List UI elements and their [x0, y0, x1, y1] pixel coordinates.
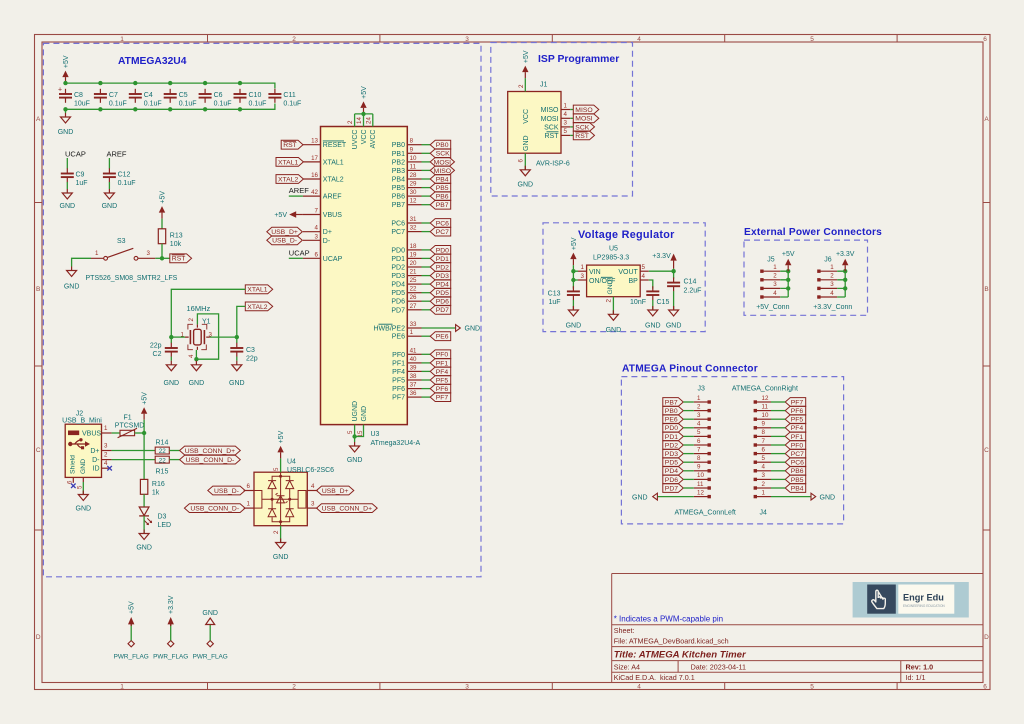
- svg-text:2: 2: [606, 299, 613, 303]
- power +5V (J1): [522, 50, 530, 78]
- svg-text:C14: C14: [684, 279, 697, 286]
- svg-text:PE6: PE6: [436, 334, 449, 341]
- U3 pin 12 PB7: [392, 198, 422, 210]
- svg-text:C6: C6: [214, 92, 223, 99]
- svg-text:PB5: PB5: [791, 477, 804, 484]
- svg-text:2: 2: [104, 452, 108, 459]
- svg-text:0.1uF: 0.1uF: [214, 100, 232, 107]
- global label PF0: [430, 350, 451, 359]
- svg-text:PB6: PB6: [436, 194, 449, 201]
- svg-text:1: 1: [104, 425, 108, 432]
- wire AREF to C12: [108, 158, 110, 169]
- frame row letters left: [36, 116, 41, 641]
- svg-text:R13: R13: [170, 233, 183, 240]
- svg-text:PB7: PB7: [392, 202, 405, 209]
- svg-text:C: C: [36, 447, 41, 454]
- svg-text:J6: J6: [824, 257, 832, 264]
- U3 pin 30 PB6: [392, 189, 422, 201]
- wire U3 PB1 to label: [422, 152, 431, 154]
- svg-text:22p: 22p: [150, 343, 162, 350]
- svg-text:PD1: PD1: [665, 434, 678, 441]
- U3 pin 27 PD7: [391, 303, 421, 315]
- svg-text:PD1: PD1: [436, 256, 449, 263]
- svg-text:Sheet:: Sheet:: [614, 626, 635, 635]
- U3 pin 20 PD2: [391, 260, 421, 272]
- power +5V (U4): [277, 430, 285, 458]
- svg-text:21: 21: [410, 269, 417, 276]
- svg-text:2: 2: [830, 273, 834, 280]
- global label SCK (J1): [573, 123, 594, 132]
- J1 pin 1 MISO: [541, 102, 571, 114]
- svg-text:4: 4: [773, 290, 777, 297]
- svg-text:USB_CONN_D+: USB_CONN_D+: [322, 506, 372, 513]
- wire U3 PB2 to label: [422, 161, 431, 163]
- U3 pin 18 PD0: [391, 243, 421, 255]
- svg-text:7: 7: [762, 438, 766, 445]
- svg-text:C11: C11: [283, 92, 295, 99]
- svg-text:PB0: PB0: [665, 408, 678, 415]
- svg-text:5: 5: [810, 36, 814, 43]
- svg-text:PC7: PC7: [391, 229, 405, 236]
- global label USB_CONN_D+ (U4): [317, 504, 378, 513]
- svg-text:PD4: PD4: [436, 282, 449, 289]
- U3 pin 8 PB0: [392, 138, 422, 150]
- power +5V (R13 pull-up): [159, 191, 167, 219]
- svg-text:2: 2: [273, 530, 280, 534]
- wire U3 ground pins: [352, 425, 363, 442]
- svg-text:C9: C9: [76, 172, 85, 179]
- svg-text:PF7: PF7: [791, 399, 804, 406]
- global label PD6 (J3 pin 10): [663, 475, 694, 484]
- svg-text:0.1uF: 0.1uF: [283, 100, 301, 107]
- svg-text:1uF: 1uF: [76, 180, 88, 187]
- svg-text:3: 3: [465, 684, 469, 691]
- svg-text:24: 24: [365, 117, 372, 124]
- title block Sheet row: [614, 626, 635, 635]
- power +5V (U5): [570, 237, 578, 265]
- svg-text:1: 1: [564, 102, 568, 109]
- svg-text:GND: GND: [102, 203, 118, 210]
- svg-text:ID: ID: [93, 466, 100, 473]
- U3 pin 13 RESET: [303, 138, 347, 150]
- svg-text:7: 7: [315, 208, 319, 215]
- svg-text:AREF: AREF: [289, 186, 309, 195]
- svg-text:PD7: PD7: [391, 307, 405, 314]
- svg-text:1: 1: [762, 489, 766, 496]
- svg-text:GND: GND: [666, 323, 682, 330]
- power flag PWR_FLAG +3.3V: [153, 595, 188, 660]
- svg-text:39: 39: [410, 364, 417, 371]
- capacitor C11: [268, 89, 301, 108]
- wire J2 D- to R15: [112, 459, 156, 461]
- svg-text:+5V: +5V: [571, 237, 578, 250]
- ground (C15): [645, 300, 661, 330]
- wire R16 to D3: [143, 494, 145, 507]
- global label PB5 (J4 pin 3): [771, 475, 806, 484]
- MCU U3 ATmega32U4-A body: [321, 127, 421, 448]
- svg-text:ISP Programmer: ISP Programmer: [538, 54, 619, 65]
- U3 top pin numbers 2 14 24: [347, 117, 372, 124]
- svg-text:6: 6: [315, 251, 319, 258]
- svg-text:LED: LED: [158, 522, 172, 529]
- svg-text:C13: C13: [548, 291, 561, 298]
- global label USB_CONN_D+: [180, 446, 241, 455]
- svg-text:XTAL1: XTAL1: [247, 287, 267, 294]
- svg-text:PF1: PF1: [791, 434, 804, 441]
- svg-text:22p: 22p: [246, 356, 258, 363]
- U3 pin 7 VBUS: [303, 208, 342, 220]
- svg-text:16: 16: [311, 172, 318, 179]
- svg-text:PB7: PB7: [436, 202, 449, 209]
- svg-text:GND: GND: [607, 279, 614, 294]
- section title Voltage Regulator: [578, 229, 675, 241]
- svg-text:10: 10: [762, 412, 769, 419]
- wire J1 SCK: [570, 126, 573, 128]
- section box External Power Connectors: [744, 240, 868, 315]
- wire U3 PD6 to label: [422, 300, 431, 302]
- svg-text:USB_D+: USB_D+: [271, 229, 298, 236]
- svg-text:RST: RST: [545, 133, 560, 140]
- svg-text:D+: D+: [323, 229, 332, 236]
- svg-text:2.2uF: 2.2uF: [684, 288, 702, 295]
- global label PC6: [430, 219, 451, 228]
- svg-text:36: 36: [410, 390, 417, 397]
- svg-text:GND: GND: [820, 494, 836, 501]
- title block Size / Date / Rev row: [614, 662, 933, 671]
- svg-text:F1: F1: [124, 415, 132, 422]
- global label PD1: [430, 254, 451, 263]
- svg-text:12: 12: [410, 198, 417, 205]
- svg-text:PF6: PF6: [791, 408, 804, 415]
- wire R15 to label: [169, 459, 179, 461]
- global label PD5 (J3 pin 8): [663, 458, 694, 467]
- svg-text:PB5: PB5: [392, 185, 405, 192]
- svg-text:0.1uF: 0.1uF: [118, 180, 136, 187]
- svg-text:PF7: PF7: [392, 395, 405, 402]
- svg-text:4: 4: [762, 464, 766, 471]
- U3 pin 32 PC7: [391, 225, 421, 237]
- svg-text:27: 27: [410, 303, 417, 310]
- svg-text:R16: R16: [152, 481, 165, 488]
- svg-text:1: 1: [120, 36, 124, 43]
- svg-text:3: 3: [564, 120, 568, 127]
- capacitor C2 22p: [150, 337, 178, 358]
- U3 bottom pins UGND GND: [347, 401, 368, 438]
- svg-text:3: 3: [830, 281, 834, 288]
- wire U3 PF5 to label: [422, 379, 431, 381]
- U4 pin 6: [244, 483, 254, 491]
- svg-text:2: 2: [188, 318, 195, 322]
- global label PD3 (J3 pin 7): [663, 449, 694, 458]
- wire U3 PD0 to label: [422, 249, 431, 251]
- svg-text:Y1: Y1: [202, 319, 211, 326]
- svg-text:C3: C3: [246, 347, 255, 354]
- global label PF4 (J4 pin 9): [771, 423, 806, 432]
- svg-text:38: 38: [410, 373, 417, 380]
- capacitor C7: [94, 89, 127, 108]
- U3 pin 37 PF6: [392, 382, 421, 394]
- global label PF5: [430, 376, 451, 385]
- connector J3 ATMEGA_ConnLeft: [675, 386, 736, 517]
- svg-text:3: 3: [311, 501, 315, 508]
- svg-text:J1: J1: [540, 82, 548, 89]
- ground (S3): [64, 267, 80, 291]
- global label PD4: [430, 280, 451, 289]
- U3 pin 4 D+: [303, 225, 332, 237]
- ground (C2): [164, 357, 180, 387]
- node UCAP: [65, 150, 86, 159]
- wire U3 PF1 to label: [422, 362, 431, 364]
- section box ATMEGA Pinout Connector: [621, 377, 843, 524]
- svg-text:PB6: PB6: [791, 468, 804, 475]
- svg-text:PD1: PD1: [391, 256, 405, 263]
- global label XTAL2: [245, 302, 272, 311]
- svg-text:28: 28: [410, 172, 417, 179]
- svg-text:20: 20: [410, 260, 417, 267]
- global label RST: [170, 254, 192, 263]
- title block Title row: [614, 649, 747, 660]
- svg-text:2: 2: [347, 120, 354, 124]
- svg-text:8: 8: [762, 429, 766, 436]
- svg-text:6: 6: [983, 684, 987, 691]
- power +3.3V (J6): [836, 251, 855, 271]
- svg-text:PB1: PB1: [392, 151, 405, 158]
- svg-text:9: 9: [762, 421, 766, 428]
- svg-text:PF4: PF4: [436, 369, 449, 376]
- svg-text:5: 5: [77, 485, 84, 489]
- global label PB5: [430, 183, 451, 192]
- section title ATMEGA Pinout Connector: [622, 364, 758, 375]
- svg-text:VIN: VIN: [589, 269, 601, 276]
- J1 pin 4 MOSI: [541, 111, 571, 123]
- svg-text:22: 22: [159, 457, 167, 464]
- svg-text:2: 2: [292, 684, 296, 691]
- svg-text:4: 4: [642, 273, 646, 280]
- svg-text:+5V: +5V: [274, 212, 287, 219]
- node AREF: [107, 150, 127, 159]
- svg-text:GND: GND: [632, 494, 648, 501]
- svg-text:+5V: +5V: [142, 392, 149, 405]
- svg-text:1: 1: [247, 501, 251, 508]
- U3 pin 31 PC6: [391, 216, 421, 228]
- wire U3 top VCC bracket: [355, 112, 373, 127]
- svg-text:10k: 10k: [170, 241, 182, 248]
- svg-text:PF5: PF5: [436, 377, 449, 384]
- capacitor C10: [234, 89, 267, 108]
- U3 pin 25 PD4: [391, 277, 421, 289]
- svg-text:Rev: 1.0: Rev: 1.0: [906, 662, 934, 671]
- svg-text:USB_D-: USB_D-: [214, 488, 239, 495]
- svg-text:6: 6: [67, 480, 74, 484]
- svg-text:USBLC6-2SC6: USBLC6-2SC6: [287, 467, 334, 474]
- svg-text:C10: C10: [249, 92, 262, 99]
- U3 pin 33 HWB/PE2: [373, 321, 421, 333]
- svg-text:XTAL2: XTAL2: [247, 304, 267, 311]
- global label PB0 (J3 pin 2): [663, 406, 694, 415]
- svg-text:GND: GND: [80, 459, 87, 474]
- fuse F1 PTCSMD: [115, 415, 145, 438]
- U3 pin 9 PB1: [392, 146, 422, 158]
- svg-text:J2: J2: [76, 411, 84, 418]
- capacitor C4: [129, 89, 162, 108]
- svg-text:VCC: VCC: [523, 109, 530, 124]
- svg-text:UCAP: UCAP: [65, 150, 86, 159]
- U5 pin 3 ON/OFF: [578, 273, 587, 280]
- svg-text:SCK: SCK: [436, 151, 450, 158]
- U5 pin 1 VIN: [578, 264, 587, 271]
- svg-text:22: 22: [159, 448, 167, 455]
- svg-text:6: 6: [247, 483, 251, 490]
- J1 pin 6 GND: [518, 153, 526, 170]
- svg-text:+5V: +5V: [361, 86, 368, 99]
- svg-text:4: 4: [697, 421, 701, 428]
- svg-text:4: 4: [830, 290, 834, 297]
- section box ISP Programmer: [491, 43, 633, 197]
- svg-text:ATMEGA_ConnLeft: ATMEGA_ConnLeft: [675, 510, 736, 517]
- svg-text:PE6: PE6: [392, 334, 405, 341]
- svg-text:10nF: 10nF: [630, 299, 646, 306]
- svg-text:+3.3V: +3.3V: [836, 251, 855, 258]
- svg-text:4: 4: [311, 483, 315, 490]
- svg-text:0.1uF: 0.1uF: [249, 100, 267, 107]
- svg-text:PB4: PB4: [392, 177, 405, 184]
- svg-text:VCC: VCC: [361, 130, 368, 145]
- global label PF5 (J4 pin 10): [771, 415, 806, 424]
- svg-text:Title: ATMEGA Kitchen Timer: Title: ATMEGA Kitchen Timer: [614, 649, 747, 660]
- svg-text:+5V: +5V: [782, 251, 795, 258]
- connector J5 +5V_Conn: [756, 257, 789, 311]
- svg-text:6: 6: [518, 159, 525, 163]
- J1 pin 3 SCK: [544, 120, 570, 132]
- svg-text:4: 4: [315, 225, 319, 232]
- wire J1 MISO: [570, 109, 573, 111]
- svg-text:2: 2: [292, 36, 296, 43]
- svg-text:3: 3: [697, 412, 701, 419]
- crystal Y1 16MHz: [181, 304, 213, 358]
- svg-text:MOSI: MOSI: [434, 159, 451, 166]
- svg-text:D: D: [36, 634, 41, 641]
- U4 pin 3: [307, 501, 317, 509]
- power +5V (U3 VBUS): [274, 211, 303, 219]
- svg-text:29: 29: [410, 181, 417, 188]
- svg-text:19: 19: [410, 251, 417, 258]
- global label RST (U3 RESET): [281, 140, 303, 149]
- svg-text:USB_CONN_D-: USB_CONN_D-: [186, 457, 235, 464]
- svg-text:PC6: PC6: [436, 220, 449, 227]
- svg-text:GND: GND: [606, 327, 622, 334]
- svg-text:42: 42: [311, 189, 318, 196]
- svg-text:PB4: PB4: [791, 485, 804, 492]
- U3 pin 36 PF7: [392, 390, 421, 402]
- wire U3 PB0 to label: [422, 144, 431, 146]
- node AREF (U3 pin 42): [289, 186, 309, 196]
- svg-text:+: +: [58, 87, 62, 94]
- wire U3 PD1 to label: [422, 257, 431, 259]
- svg-text:PWR_FLAG: PWR_FLAG: [193, 654, 228, 661]
- svg-text:PC6: PC6: [791, 460, 804, 467]
- U3 pin 41 PF0: [392, 347, 421, 359]
- wire decoupling bottom rail: [63, 104, 275, 112]
- global label PC7 (J4 pin 6): [771, 449, 806, 458]
- global label PD4 (J3 pin 9): [663, 466, 694, 475]
- svg-text:2: 2: [518, 84, 525, 88]
- wire VOUT to +3.3V / C14: [649, 269, 676, 279]
- svg-text:PD2: PD2: [665, 442, 678, 449]
- wire U3 PD3 to label: [422, 275, 431, 277]
- svg-text:0.1uF: 0.1uF: [179, 100, 197, 107]
- resistor R15 22: [155, 456, 169, 475]
- global label PB0: [430, 140, 451, 149]
- svg-text:External Power Connectors: External Power Connectors: [744, 227, 882, 238]
- power +5V (U3 VCC rail): [360, 86, 368, 114]
- svg-text:XTAL2: XTAL2: [323, 177, 344, 184]
- svg-text:R15: R15: [156, 469, 169, 476]
- svg-text:26: 26: [410, 294, 417, 301]
- svg-text:4: 4: [188, 354, 195, 358]
- connector J2 USB_B_Mini body: [62, 411, 102, 478]
- svg-text:XTAL2: XTAL2: [278, 176, 298, 183]
- global label USB_D- (U4): [208, 486, 245, 495]
- power +5V (USB rail): [141, 392, 149, 420]
- U3 pin 3 D-: [303, 233, 331, 245]
- svg-text:41: 41: [410, 347, 417, 354]
- svg-text:18: 18: [410, 243, 417, 250]
- svg-text:GND: GND: [58, 129, 74, 136]
- svg-text:+3.3V: +3.3V: [652, 253, 671, 260]
- svg-text:R14: R14: [156, 440, 169, 447]
- U3 pin 6 UCAP: [303, 251, 343, 263]
- svg-text:2: 2: [762, 481, 766, 488]
- global label MOSI: [430, 158, 454, 167]
- svg-text:5: 5: [697, 429, 701, 436]
- svg-text:PB4: PB4: [436, 176, 449, 183]
- svg-text:C7: C7: [109, 92, 118, 99]
- svg-text:PTS526_SM08_SMTR2_LFS: PTS526_SM08_SMTR2_LFS: [86, 275, 178, 282]
- global label PE6: [430, 332, 451, 341]
- wire U3 PF0 to label: [422, 353, 431, 355]
- svg-text:PB7: PB7: [665, 399, 678, 406]
- svg-text:31: 31: [410, 216, 417, 223]
- power +5V (J5): [782, 251, 795, 271]
- svg-text:4: 4: [637, 36, 641, 43]
- global label PF7 (J4 pin 12): [771, 398, 806, 407]
- title block grid lines: [612, 574, 983, 683]
- svg-text:5: 5: [347, 430, 354, 434]
- svg-text:GND: GND: [523, 135, 530, 151]
- svg-text:+5V: +5V: [160, 191, 167, 204]
- wire U3 PD4 to label: [422, 283, 431, 285]
- global label PC6 (J4 pin 5): [771, 458, 806, 467]
- svg-text:12: 12: [762, 395, 769, 402]
- wire crystal left pin to C2: [169, 335, 185, 339]
- global label USB_D+ (U3): [267, 227, 303, 236]
- global label PB6: [430, 192, 451, 201]
- U3 pin 39 PF4: [392, 364, 421, 376]
- svg-text:XTAL1: XTAL1: [278, 159, 298, 166]
- svg-text:D-: D-: [92, 457, 100, 464]
- svg-text:40: 40: [410, 356, 417, 363]
- svg-text:C4: C4: [144, 92, 153, 99]
- svg-text:PF7: PF7: [436, 395, 449, 402]
- svg-text:PF0: PF0: [791, 442, 804, 449]
- svg-text:4: 4: [637, 684, 641, 691]
- capacitor C13 1uF: [548, 286, 580, 306]
- ground (C3): [229, 357, 245, 387]
- svg-text:PF1: PF1: [392, 360, 405, 367]
- capacitor C8: [58, 87, 90, 108]
- svg-text:PF6: PF6: [436, 386, 449, 393]
- svg-text:C15: C15: [657, 299, 670, 306]
